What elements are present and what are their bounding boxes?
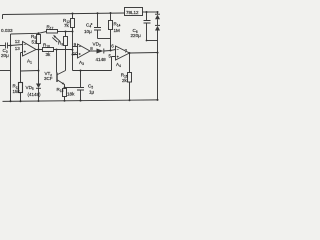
svg-text:15k: 15k <box>13 89 21 94</box>
svg-text:3CF: 3CF <box>44 76 53 81</box>
transistor VT2 base bar <box>56 73 58 83</box>
wire A1 out down <box>38 50 40 84</box>
svg-text:4148: 4148 <box>96 57 107 62</box>
svg-text:R9: R9 <box>58 41 63 47</box>
capacitor C4 <box>97 13 99 27</box>
wire A4 output <box>130 52 158 55</box>
resistor R9 <box>64 37 68 46</box>
wire 78L12 output <box>143 11 158 13</box>
wire mid horizontal <box>21 70 39 73</box>
diode VD3 <box>97 49 104 54</box>
svg-text:78L12: 78L12 <box>126 10 139 15</box>
svg-text:20μ: 20μ <box>1 53 9 58</box>
wire left mid terminal <box>0 70 11 72</box>
op-amp A1 <box>23 42 37 57</box>
svg-text:A4: A4 <box>116 62 121 68</box>
svg-text:(4148): (4148) <box>28 92 42 97</box>
wire A1 output <box>36 49 43 51</box>
wire R17 right lead <box>58 31 73 33</box>
svg-text:6: 6 <box>111 44 114 49</box>
wire emitter node <box>65 87 81 89</box>
svg-text:10: 10 <box>73 51 79 56</box>
wire R10 right <box>54 49 73 51</box>
wire pin5 <box>112 57 116 71</box>
wire pin13 <box>21 52 23 54</box>
svg-text:A1: A1 <box>27 59 32 65</box>
svg-text:0.033: 0.033 <box>1 28 13 33</box>
wire pin9 <box>73 46 78 48</box>
svg-text:C4: C4 <box>86 22 91 28</box>
svg-text:220μ: 220μ <box>131 33 142 38</box>
diode VD right bottom <box>157 19 159 25</box>
op-amp A4 <box>116 46 130 60</box>
svg-text:R15: R15 <box>57 87 64 93</box>
svg-text:13: 13 <box>15 46 21 51</box>
wire A3 out <box>90 50 97 52</box>
svg-text:10μ: 10μ <box>84 29 92 34</box>
svg-text:R14: R14 <box>114 22 121 28</box>
wire feedback node up <box>10 34 12 46</box>
wire C6 bottom <box>147 40 158 42</box>
wire R17 left lead <box>39 32 47 34</box>
svg-text:7: 7 <box>125 49 128 54</box>
wire top rail <box>3 13 125 15</box>
resistor R17 box <box>47 30 58 34</box>
svg-text:3k: 3k <box>46 52 52 57</box>
svg-text:A3: A3 <box>79 60 84 66</box>
svg-text:8: 8 <box>90 46 93 51</box>
wire pin10 <box>73 54 78 56</box>
resistor R16 <box>128 73 132 83</box>
diode VD5 <box>36 84 41 89</box>
resistor R14 <box>109 21 113 30</box>
svg-text:12: 12 <box>15 39 21 44</box>
wire U below opamps <box>73 70 112 72</box>
transistor VT2 collector and emitter <box>58 71 66 85</box>
capacitor C0 plates <box>6 43 8 49</box>
resistor R5 <box>37 35 41 44</box>
diode VD right top <box>157 12 159 14</box>
svg-text:1μ: 1μ <box>89 90 95 95</box>
wire top-left terminal tick <box>2 15 4 20</box>
resistor R13 <box>19 83 23 93</box>
svg-text:7k: 7k <box>64 23 70 28</box>
op-amp A3 <box>78 44 91 58</box>
potentiometer R17 arrow <box>54 36 60 41</box>
regulator 78L12 box <box>125 8 143 16</box>
svg-text:1M: 1M <box>114 28 121 33</box>
svg-text:51: 51 <box>32 40 38 45</box>
resistor R15 <box>63 89 67 97</box>
wire pin13 down <box>20 53 22 83</box>
svg-text:VD3: VD3 <box>93 42 101 48</box>
resistor R12 <box>71 19 75 28</box>
svg-text:2k: 2k <box>122 78 128 83</box>
resistor R10 <box>43 48 54 52</box>
capacitor C5 <box>80 71 82 88</box>
wire VD3 to A4 <box>104 50 116 52</box>
capacitor C6 <box>146 12 148 20</box>
wire right column down <box>157 31 159 100</box>
wire input node down to ground <box>10 46 12 102</box>
wire input left <box>0 45 6 47</box>
wire base vertical <box>56 50 58 73</box>
wire C4 to R14 <box>98 38 111 40</box>
wire C0 to node <box>8 45 12 47</box>
op-amp polarity marks <box>24 44 26 52</box>
wire feedback horizontal 0.033 <box>11 32 39 35</box>
labels <box>1 10 141 97</box>
wire node to pin12 <box>11 45 23 46</box>
wire vertical x72 <box>72 32 74 71</box>
junction dots <box>10 11 159 102</box>
svg-text:VD5: VD5 <box>26 85 34 91</box>
wire bottom ground rail <box>3 100 158 102</box>
svg-text:18k: 18k <box>67 91 75 96</box>
